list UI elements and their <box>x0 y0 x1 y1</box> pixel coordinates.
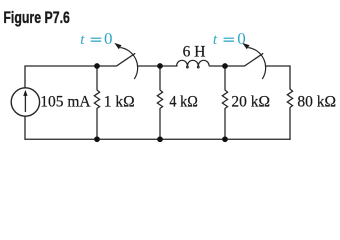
inductor L1 6 H <box>177 60 210 68</box>
svg-text:6 H: 6 H <box>183 44 206 61</box>
wire inductor right to node C <box>210 65 226 67</box>
svg-text:Figure P7.6: Figure P7.6 <box>3 8 70 27</box>
switch SW1 (opens at t=0) <box>114 43 137 79</box>
wire bottom rail node E to node F <box>97 138 160 140</box>
node C junction dot <box>222 63 228 69</box>
svg-text:105 mA: 105 mA <box>40 93 91 110</box>
wire node A to switch SW1 pivot <box>97 65 117 67</box>
resistor R2 4 kOhm <box>157 66 162 139</box>
svg-text:1 kΩ: 1 kΩ <box>104 93 135 110</box>
resistor R3 20 kOhm <box>222 66 227 139</box>
wire bottom rail node G to bottom-right corner <box>225 138 290 140</box>
resistor R1 1 kOhm <box>94 66 99 139</box>
wire bottom rail node F to node G <box>160 138 225 140</box>
wire node B to inductor left <box>160 65 177 67</box>
svg-text:80 kΩ: 80 kΩ <box>297 93 336 110</box>
switch SW2 (opens at t=0) <box>242 43 265 79</box>
svg-text:20 kΩ: 20 kΩ <box>231 93 270 110</box>
svg-text:4 kΩ: 4 kΩ <box>169 93 197 110</box>
label t = 0 for SW1 <box>80 29 112 48</box>
node A junction dot <box>94 63 100 69</box>
resistor R4 80 kOhm <box>287 89 292 107</box>
wire switch SW2 contact to top-right corner, down to resistor R4 top <box>266 66 290 89</box>
current source IS1 105 mA <box>11 88 39 116</box>
label t = 0 for SW2 <box>213 29 246 48</box>
node E junction dot <box>94 136 100 142</box>
wire source bottom to bottom-left corner to node E <box>25 116 97 139</box>
node G junction dot <box>222 136 228 142</box>
wire node C to switch SW2 pivot <box>225 65 245 67</box>
wire switch SW1 contact to node B <box>138 65 160 67</box>
wire resistor R4 bottom to bottom-right corner <box>289 108 291 139</box>
node B junction dot <box>157 63 163 69</box>
node F junction dot <box>157 136 163 142</box>
wire top-left: node A to source top corner <box>25 66 97 88</box>
